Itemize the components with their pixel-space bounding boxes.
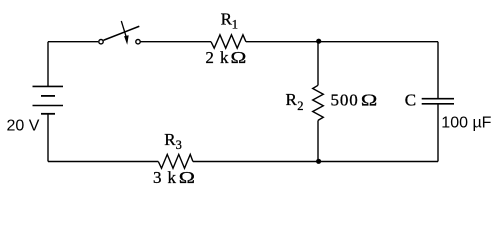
svg-text:Ω: Ω [231,48,247,67]
svg-text:1: 1 [232,17,238,31]
svg-text:Ω: Ω [179,168,195,187]
svg-text:C: C [405,90,416,109]
svg-text:3: 3 [176,138,182,152]
svg-text:2 k: 2 k [205,48,229,67]
svg-text:3 k: 3 k [153,168,176,187]
svg-text:500: 500 [331,91,359,110]
svg-text:R: R [164,130,176,149]
svg-text:R: R [221,9,233,28]
svg-text:100 µF: 100 µF [441,114,491,131]
svg-text:2: 2 [297,99,303,113]
svg-text:R: R [286,90,298,109]
svg-text:Ω: Ω [361,91,377,110]
svg-text:20 V: 20 V [7,118,40,135]
